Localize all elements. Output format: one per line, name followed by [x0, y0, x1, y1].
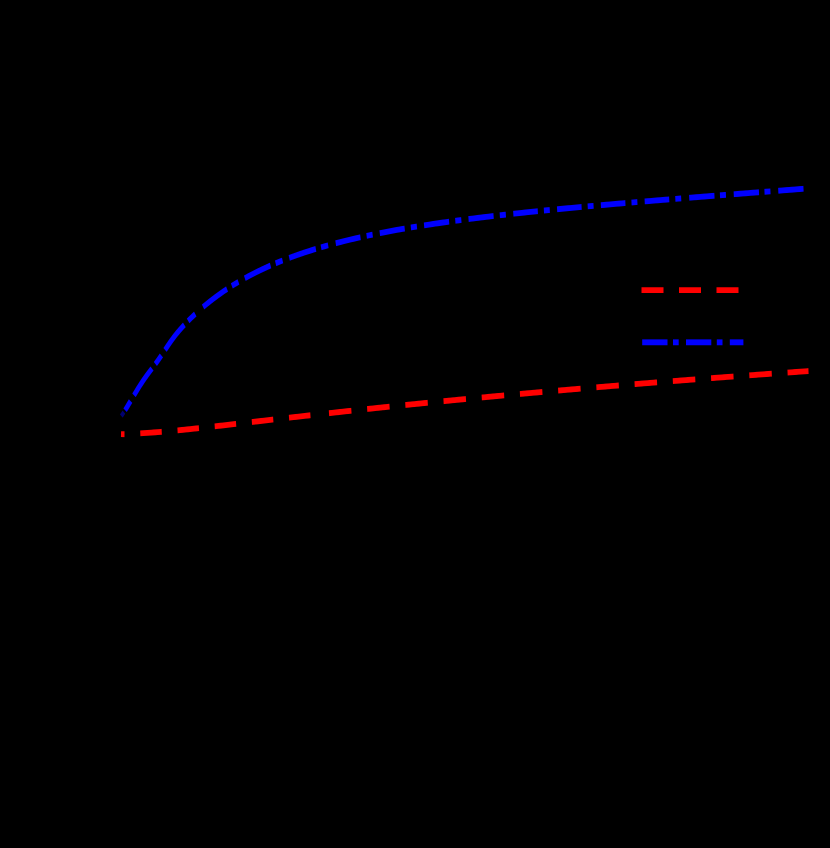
- legend blue dash-dot sample: [642, 340, 743, 344]
- blue dash-dot curve faint clipped start: [121, 412, 124, 416]
- red dashed curve: [121, 414, 320, 434]
- blue dash-dot curve: [123, 310, 200, 414]
- legend red dashed sample: [642, 288, 739, 292]
